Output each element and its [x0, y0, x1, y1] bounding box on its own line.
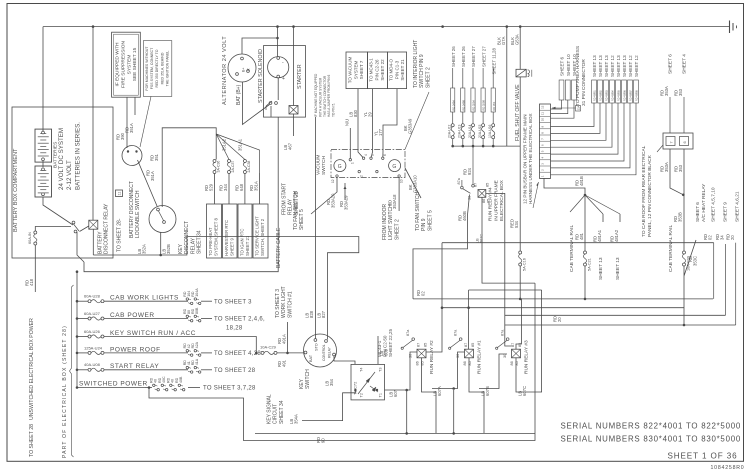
svg-text:PANEL, 12 PIN CONNECTOR BLACK: PANEL, 12 PIN CONNECTOR BLACK — [647, 154, 653, 237]
svg-text:467: 467 — [287, 142, 292, 150]
busbar 13A box — [552, 105, 581, 111]
node bus-alt — [276, 25, 279, 28]
vacuum switch circle 2 — [389, 160, 401, 172]
svg-text:353C: 353C — [693, 256, 698, 266]
wire battery series link — [42, 161, 44, 167]
wire rd90 drop1 — [406, 390, 408, 433]
node bus-startrelay — [292, 25, 295, 28]
svg-text:3A-C36: 3A-C36 — [217, 161, 221, 173]
svg-text:RED 351A, BEHIND: RED 351A, BEHIND — [160, 52, 164, 84]
svg-text:40A-U08: 40A-U08 — [84, 362, 101, 367]
alternator label — [222, 36, 228, 105]
svg-text:BATTERY: BATTERY — [98, 231, 104, 254]
svg-text:SHEET 6: SHEET 6 — [560, 56, 565, 76]
wire RD 351A to key switch — [138, 160, 158, 206]
svg-text:THE SWITCH CONNECTOR: THE SWITCH CONNECTOR — [323, 75, 327, 117]
battery box compartment outline — [12, 107, 113, 258]
svg-text:HARNESS UNDER THE ELECTRICAL B: HARNESS UNDER THE ELECTRICAL BOX — [528, 113, 533, 204]
rd481 fan lines — [570, 195, 620, 214]
svg-text:41A: 41A — [195, 358, 199, 365]
fss note box — [143, 41, 171, 97]
svg-text:12 PIN BUSBAR ON UPPER FRAME M: 12 PIN BUSBAR ON UPPER FRAME MAIN — [523, 114, 528, 204]
svg-text:7: 7 — [541, 138, 545, 140]
svg-text:R: R — [247, 68, 251, 71]
svg-text:G353A9: G353A9 — [408, 118, 413, 134]
key switch label — [299, 369, 311, 389]
svg-text:TO SHEET 28: TO SHEET 28 — [214, 368, 256, 374]
pump area harness label — [575, 46, 587, 106]
svg-text:353: 353 — [678, 88, 683, 96]
wire relay2 87 up — [426, 308, 442, 352]
svg-text:924: 924 — [467, 167, 472, 175]
svg-text:SHEET 4: SHEET 4 — [682, 54, 688, 74]
svg-text:FROM INDOOR: FROM INDOOR — [382, 204, 388, 240]
svg-text:SHEET 13: SHEET 13 — [592, 55, 597, 77]
svg-text:RD 349A: RD 349A — [451, 100, 455, 111]
svg-text:10A-C29: 10A-C29 — [260, 345, 277, 350]
svg-text:STO: STO — [315, 343, 319, 351]
svg-text:RELAY: RELAY — [190, 237, 196, 254]
wire relay4 87 — [472, 146, 475, 187]
wire label YL 177 — [374, 128, 383, 136]
wire bus 316 — [505, 314, 726, 316]
wire relay1 coil down LB607B — [469, 358, 490, 434]
battery box compartment label — [13, 148, 19, 232]
battery cable wire — [84, 117, 278, 272]
fuse 60A-IN — [28, 231, 37, 245]
svg-text:KEY SWITCH RUN / ACC: KEY SWITCH RUN / ACC — [110, 330, 196, 337]
wire start relay down — [293, 114, 295, 136]
wire RD 529 — [204, 174, 215, 205]
wire RD 481A1 — [593, 214, 605, 280]
wire RD 351A col4 — [249, 173, 260, 204]
wire rd353b to bus — [683, 276, 685, 325]
wire alternator to bus — [242, 38, 278, 54]
svg-text:40B: 40B — [179, 376, 183, 383]
svg-text:G: G — [392, 164, 396, 170]
svg-text:87: 87 — [417, 343, 421, 347]
title serial numbers line 2 — [560, 435, 741, 444]
node rd90-1 — [405, 432, 408, 435]
svg-text:460B: 460B — [462, 211, 467, 221]
node b307-2 — [467, 306, 470, 309]
run relay 4 coil — [478, 190, 486, 198]
node key bat — [286, 352, 289, 355]
svg-text:RD 350B: RD 350B — [482, 100, 486, 111]
svg-text:SHEET 12: SHEET 12 — [628, 55, 633, 77]
wire battery negative to relay contact — [43, 197, 73, 225]
wire LB 828 label — [305, 310, 314, 318]
wire top rail 242 — [442, 242, 714, 244]
wire label RD 353A18 — [388, 194, 398, 209]
lockable switch label — [129, 181, 141, 238]
svg-text:T3: T3 — [379, 368, 383, 372]
svg-text:87a: 87a — [457, 177, 461, 184]
svg-text:STARTER SOLENOID: STARTER SOLENOID — [258, 49, 264, 103]
svg-text:353B: 353B — [677, 212, 682, 222]
svg-text:12: 12 — [541, 105, 545, 109]
svg-text:80B: 80B — [195, 307, 199, 314]
svg-text:87: 87 — [511, 343, 515, 347]
wire RED534 lower — [519, 266, 521, 299]
from start relay label — [282, 183, 300, 215]
run relay 4 pins — [457, 177, 491, 203]
svg-text:TO PIN 5.: TO PIN 5. — [332, 103, 336, 117]
wire label 351A1 — [238, 138, 243, 151]
svg-text:177: 177 — [378, 128, 383, 136]
svg-text:SERIAL NUMBERS 830*4001 TO 830: SERIAL NUMBERS 830*4001 TO 830*5000 — [560, 435, 741, 444]
busbar top column 3 — [551, 54, 578, 118]
svg-text:2: 2 — [541, 169, 545, 171]
wire LB 607 — [385, 352, 418, 397]
svg-text:IN UPPER FRAME: IN UPPER FRAME — [493, 180, 499, 221]
fuse column 5 top-right — [488, 48, 496, 148]
svg-text:SHEET 13: SHEET 13 — [598, 55, 603, 77]
svg-text:RD 45981: RD 45981 — [594, 90, 597, 101]
svg-text:LOCKABLE SWITCH: LOCKABLE SWITCH — [135, 190, 141, 238]
wire RD 481A2 — [610, 214, 622, 280]
wire solenoid to contact — [277, 78, 279, 100]
svg-text:4: 4 — [541, 157, 545, 159]
svg-text:607C: 607C — [522, 386, 527, 396]
pump harness column 5 — [551, 55, 622, 154]
svg-text:1084258R0: 1084258R0 — [710, 465, 744, 471]
svg-text:6: 6 — [541, 144, 545, 146]
svg-text:SHEET 2: SHEET 2 — [394, 219, 400, 240]
wire label BLK G7A — [497, 36, 506, 45]
wire RD 344 — [219, 174, 230, 205]
svg-text:353A: 353A — [664, 162, 669, 172]
node bus-g53a — [519, 25, 522, 28]
wire label RD 351A diag — [146, 170, 156, 181]
wire BLK G53A upper — [519, 27, 521, 70]
wire LB 830 — [358, 89, 364, 159]
wire RD 351A from fire box — [134, 97, 136, 115]
battery disconnect relay circle — [122, 146, 142, 166]
svg-text:86: 86 — [510, 361, 514, 365]
fuse 2A-C37 — [227, 160, 235, 174]
wire BLK G53A lower — [519, 77, 521, 146]
svg-text:TO MC43-1: TO MC43-1 — [369, 58, 374, 82]
svg-text:+: + — [282, 76, 285, 82]
wire bus down to solenoid — [277, 27, 279, 57]
wire relay contact link — [80, 226, 89, 232]
batteries label — [53, 142, 59, 168]
svg-text:SHEET 22: SHEET 22 — [380, 59, 385, 81]
svg-text:RUN RELAY #1: RUN RELAY #1 — [477, 340, 483, 374]
svg-text:BAT: BAT — [309, 354, 313, 362]
svg-text:TO FAN SWITCH: TO FAN SWITCH — [293, 191, 299, 230]
wire label LB 830 — [349, 109, 358, 117]
wire RD 481 — [575, 195, 586, 251]
svg-text:VACUUM: VACUUM — [316, 155, 322, 175]
ac heat relay label — [695, 183, 707, 222]
wire relay1 87 up — [468, 308, 470, 350]
svg-text:TO IGAN RTC: TO IGAN RTC — [240, 228, 245, 256]
node rd02-534 — [519, 298, 522, 301]
svg-text:SHEET 13: SHEET 13 — [622, 55, 627, 77]
svg-text:6: 6 — [383, 154, 387, 156]
electrical box bracket — [70, 285, 74, 457]
svg-text:CAB TERMINAL RAIL: CAB TERMINAL RAIL — [668, 224, 674, 272]
svg-text:KEY: KEY — [178, 243, 184, 254]
battery B2 — [35, 166, 52, 197]
starter relay coil — [289, 106, 298, 115]
key disconnect relay label — [178, 221, 203, 254]
svg-text:24 VOLT DC SYSTEM: 24 VOLT DC SYSTEM — [58, 128, 65, 190]
fire suppression box — [112, 32, 141, 97]
wire LB 354A — [289, 389, 357, 424]
to md4 box — [388, 52, 407, 89]
svg-text:40: 40 — [171, 379, 175, 383]
cab roof connector — [663, 133, 693, 149]
12 pin busbar — [540, 104, 551, 178]
svg-text:SHEET 12: SHEET 12 — [634, 55, 639, 77]
from indoor light label — [382, 204, 400, 240]
wire RD 353A18 — [398, 178, 400, 212]
svg-text:40C: 40C — [162, 376, 166, 383]
svg-text:4: 4 — [364, 154, 368, 156]
svg-text:SYSTEM: SYSTEM — [353, 61, 358, 80]
wire label 351A2 — [222, 138, 227, 151]
wire switched loop — [149, 283, 535, 440]
svg-text:SHEET 6: SHEET 6 — [668, 54, 674, 74]
svg-text:10A-U16: 10A-U16 — [488, 125, 492, 138]
fuse column 4 top-right — [478, 46, 486, 148]
ground symbol — [730, 21, 737, 34]
wire key fuse left — [277, 359, 286, 367]
svg-text:TO SERVICE LIGHT: TO SERVICE LIGHT — [255, 216, 260, 256]
wire label BLK G53A — [510, 34, 519, 45]
battery cable label — [276, 227, 282, 268]
wire 468 up — [468, 290, 470, 308]
svg-text:BATTERY CABLE: BATTERY CABLE — [276, 227, 282, 268]
wire relay3 87a — [479, 354, 507, 389]
node LB352 — [159, 254, 162, 257]
svg-text:SHEET 1 OF 36: SHEET 1 OF 36 — [667, 452, 737, 461]
fuse 2A-C38 — [243, 160, 251, 174]
to mc43 box — [368, 52, 388, 89]
svg-text:354A: 354A — [293, 414, 298, 424]
wire alternator B+ down — [243, 82, 270, 124]
diode pins — [360, 368, 383, 398]
electrical box bus — [76, 270, 79, 387]
battery B1 — [35, 129, 52, 162]
svg-text:830: 830 — [353, 109, 358, 117]
svg-text:SWITCH, SHEET 2: SWITCH, SHEET 2 — [260, 218, 265, 256]
wire RD 353A lower — [660, 149, 684, 195]
svg-text:60A-U26: 60A-U26 — [84, 329, 101, 334]
pump harness column 1 — [551, 55, 598, 127]
run relay 1 — [449, 329, 483, 374]
svg-text:CIRCUIT: CIRCUIT — [273, 404, 279, 424]
to vacuum system text — [348, 56, 365, 83]
svg-text:351A: 351A — [150, 171, 155, 181]
svg-text:SHEET 11,28: SHEET 11,28 — [491, 48, 496, 75]
svg-text:87a: 87a — [501, 329, 505, 336]
to fan switch label — [293, 191, 305, 230]
svg-text:RD 45984: RD 45984 — [612, 90, 615, 101]
svg-text:11: 11 — [541, 112, 545, 115]
svg-text:SHEET 13: SHEET 13 — [598, 257, 604, 280]
svg-text:PIN C2-26: PIN C2-26 — [374, 59, 379, 81]
svg-text:607B: 607B — [485, 386, 490, 396]
pump harness column 7 — [551, 55, 634, 168]
svg-text:40: 40 — [154, 379, 158, 383]
to sheet 28 label — [117, 218, 123, 252]
svg-text:CAB TERMINAL RAIL: CAB TERMINAL RAIL — [569, 224, 575, 272]
svg-text:351A: 351A — [253, 181, 258, 191]
svg-text:607C: 607C — [480, 234, 484, 243]
wire 351A diag — [216, 134, 259, 173]
vacuum switch circle 1 — [334, 160, 346, 172]
svg-text:RD 351: RD 351 — [492, 101, 496, 110]
to sheet 28 box 11 — [116, 190, 123, 197]
svg-text:TO SHEET 3,7,28: TO SHEET 3,7,28 — [203, 386, 256, 392]
fuse 5A-C21 — [583, 251, 591, 271]
wire RD 648 — [235, 174, 245, 205]
svg-text:353: 353 — [678, 164, 683, 172]
wire RD 491A up — [277, 322, 288, 353]
svg-text:SHEET 10: SHEET 10 — [566, 54, 571, 76]
svg-text:UNSWITCHED ELECTRICAL BOX POWE: UNSWITCHED ELECTRICAL BOX POWER — [29, 318, 35, 420]
svg-text:WORK LIGHT: WORK LIGHT — [281, 286, 287, 318]
node rd90-2 — [452, 432, 455, 435]
pump harness column 8 — [551, 55, 640, 175]
svg-text:02: 02 — [707, 235, 712, 240]
svg-text:TO SHEET 2,4,6,: TO SHEET 2,4,6, — [214, 317, 265, 323]
svg-text:648: 648 — [239, 183, 244, 191]
svg-text:20: 20 — [730, 235, 735, 240]
svg-text:2A-C37: 2A-C37 — [231, 161, 235, 173]
svg-text:481A1: 481A1 — [597, 229, 602, 242]
wire start relay from bus — [293, 27, 295, 106]
fss note text — [145, 46, 170, 91]
fuse column 1 top-right — [448, 46, 456, 148]
svg-text:PART OF ELECTRICAL BOX (SHEET: PART OF ELECTRICAL BOX (SHEET 28) — [62, 325, 68, 458]
vacuum switch box — [331, 149, 405, 177]
svg-text:SEE SHEET 15: SEE SHEET 15 — [132, 47, 138, 81]
run relay 2 — [401, 329, 435, 374]
wire label RD 353A20 — [326, 193, 336, 208]
wire RD 353A20 — [311, 178, 337, 215]
connector leader — [657, 145, 663, 152]
wire label RD 351 — [150, 153, 159, 161]
svg-text:30: 30 — [503, 354, 507, 358]
cab roof connector label — [641, 145, 653, 237]
rd34 column — [715, 202, 729, 316]
svg-text:STARTER: STARTER — [297, 64, 303, 89]
busbar leader arrow — [533, 182, 539, 208]
node b325 — [683, 324, 686, 327]
battery B1 terminals — [42, 131, 45, 161]
svg-text:353A: 353A — [664, 86, 669, 96]
key switch circle — [304, 334, 337, 367]
svg-text:85: 85 — [471, 343, 475, 347]
node rd353 join — [682, 194, 685, 197]
svg-text:G: G — [338, 164, 342, 170]
run relay 4 label — [488, 179, 506, 221]
svg-text:9: 9 — [541, 126, 545, 128]
part of electrical box label — [62, 325, 68, 458]
svg-text:CAB WORK LIGHTS: CAB WORK LIGHTS — [110, 295, 179, 302]
svg-text:SWITCH PIN 9: SWITCH PIN 9 — [419, 54, 425, 88]
wire RD 460B — [413, 195, 470, 299]
harvester rtc box — [223, 204, 238, 258]
fuse row 60A-U26 KEY SWITCH RUN / ACC — [76, 329, 196, 338]
svg-text:FSS SYSTEM, CONNECT: FSS SYSTEM, CONNECT — [150, 47, 154, 89]
svg-text:8: 8 — [541, 132, 545, 134]
svg-text:SHEET 27: SHEET 27 — [471, 46, 476, 67]
svg-text:TO CAB ROOF FROM REAR EECTRICA: TO CAB ROOF FROM REAR EECTRICAL — [641, 145, 647, 237]
svg-text:5A-C16: 5A-C16 — [523, 258, 527, 271]
wire RD 350 from fire box — [126, 97, 128, 148]
svg-text:SHEET 13: SHEET 13 — [615, 257, 621, 280]
fuse 5A-C16 — [519, 251, 527, 271]
svg-text:3: 3 — [541, 163, 545, 165]
starter solenoid label — [258, 49, 264, 103]
svg-text:SHEET 21: SHEET 21 — [400, 59, 405, 81]
svg-text:60A-U28: 60A-U28 — [84, 294, 101, 299]
mc43 pin c250 label — [377, 329, 393, 357]
svg-text:THE IGNITION PANEL: THE IGNITION PANEL — [166, 51, 170, 87]
fuse column 3 top-right — [468, 46, 476, 148]
svg-text:SHEET 26: SHEET 26 — [451, 46, 456, 67]
svg-text:491A: 491A — [281, 334, 286, 344]
svg-text:KEY SIGNAL: KEY SIGNAL — [267, 394, 273, 424]
wire BLK G7A — [506, 27, 508, 147]
svg-text:34: 34 — [719, 235, 724, 240]
diode symbols — [358, 372, 378, 394]
svg-text:RUN RELAY #3: RUN RELAY #3 — [524, 340, 530, 374]
svg-text:2-12 VOLT: 2-12 VOLT — [66, 160, 73, 190]
svg-text:491: 491 — [281, 359, 286, 367]
svg-text:20: 20 — [557, 317, 562, 322]
wire relay4 coil down — [476, 197, 484, 247]
wire label RD 353A19 — [339, 195, 349, 210]
node b307-1 — [441, 306, 444, 309]
svg-text:BATTERY BOX COMPARTMENT: BATTERY BOX COMPARTMENT — [13, 148, 19, 232]
svg-text:SYSTEM: SYSTEM — [126, 55, 132, 75]
wire label YL 29 — [363, 111, 372, 117]
svg-text:607A: 607A — [437, 386, 442, 396]
svg-text:TO FAN SWITCH: TO FAN SWITCH — [415, 192, 421, 231]
svg-text:60A-IN: 60A-IN — [28, 232, 32, 244]
wire YL 177 — [383, 89, 397, 159]
key switch inner labels — [309, 343, 332, 362]
wire label RD 350 — [116, 132, 125, 140]
to preheat box — [207, 204, 222, 258]
svg-text:TO MD4-O: TO MD4-O — [389, 59, 394, 81]
wire relay2 coil down LB607A — [422, 358, 442, 434]
fuse 10A-C09 — [682, 251, 690, 271]
busbar top column 2 — [551, 54, 571, 114]
svg-text:20A-U13: 20A-U13 — [458, 125, 462, 138]
cab terminal rail 2 label — [668, 224, 674, 272]
svg-text:SWITCHED POWER: SWITCHED POWER — [79, 380, 148, 387]
svg-text:85: 85 — [486, 183, 490, 187]
wire bus 325 — [505, 316, 736, 325]
sheet4 column — [674, 54, 688, 133]
svg-text:344: 344 — [223, 183, 228, 191]
svg-text:86: 86 — [416, 361, 420, 365]
title sheet number — [667, 452, 737, 461]
fuse 3A-C36 — [213, 160, 221, 174]
svg-text:BATTERIES IN SERIES.: BATTERIES IN SERIES. — [74, 122, 81, 190]
svg-text:SHEET 13: SHEET 13 — [616, 55, 621, 77]
svg-text:RELAY: RELAY — [328, 346, 332, 358]
switched power row — [76, 376, 256, 392]
